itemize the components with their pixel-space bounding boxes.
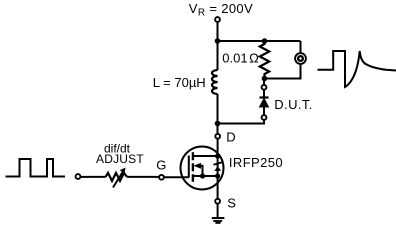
transistor Q1 body arrow xyxy=(193,163,202,176)
wire drain junction to D terminal xyxy=(217,124,219,134)
connector J1 coax probe xyxy=(295,53,306,64)
wire terminal to diode cathode xyxy=(263,90,265,96)
svg-text:IRFP250: IRFP250 xyxy=(229,155,283,170)
wire D terminal into mosfet drain xyxy=(217,139,219,156)
svg-text:ADJUST: ADJUST xyxy=(96,152,144,166)
wire mosfet source to S terminal xyxy=(217,176,219,198)
wire rheostat to G terminal xyxy=(127,176,159,178)
wire probe loop right side xyxy=(265,41,301,79)
svg-text:D: D xyxy=(226,130,235,145)
terminal DUT cathode xyxy=(262,85,267,90)
node top junction xyxy=(215,38,221,44)
wire S terminal to ground xyxy=(217,204,219,217)
node resistor bottom junction xyxy=(262,76,268,82)
terminal DUT anode xyxy=(262,115,267,120)
svg-text:S: S xyxy=(227,195,236,210)
label VR = 200V xyxy=(189,1,253,18)
wire diode anode to terminal xyxy=(263,107,265,115)
transistor Q1 envelope xyxy=(181,147,224,190)
resistor rheostat di/dt adjust xyxy=(106,173,128,181)
wire G terminal to gate xyxy=(164,176,188,178)
rheostat arrow xyxy=(113,168,126,188)
wire mosfet drain to source internal xyxy=(217,156,219,176)
waveform gate drive square wave xyxy=(6,159,66,177)
wire top horizontal to probe branch xyxy=(218,40,301,42)
node mosfet drain junction xyxy=(215,153,220,158)
wire VR terminal to top junction xyxy=(217,22,219,41)
wire DUT branch to drain node xyxy=(218,120,265,123)
wire resistor bottom to DUT anode terminal xyxy=(263,81,265,84)
node mosfet body junction xyxy=(200,173,205,178)
wire input terminal to rheostat xyxy=(81,176,106,178)
transistor Q1 source connect xyxy=(193,175,218,177)
svg-text:G: G xyxy=(156,158,166,173)
svg-text:D.U.T.: D.U.T. xyxy=(274,97,313,112)
node drain junction xyxy=(215,121,221,127)
svg-text:0.01Ω: 0.01Ω xyxy=(222,50,259,65)
terminal VR xyxy=(215,17,220,22)
transistor Q1 drain connect xyxy=(193,155,218,157)
wire top junction to inductor xyxy=(217,41,219,70)
svg-text:L = 70µH: L = 70µH xyxy=(153,75,206,90)
diode D.U.T. xyxy=(260,98,269,108)
resistor 0.01 ohm xyxy=(260,41,269,79)
waveform reverse recovery output xyxy=(318,51,396,87)
terminal G xyxy=(159,175,164,180)
inductor L 70uH xyxy=(212,70,218,94)
node mosfet source junction xyxy=(215,173,220,178)
terminal S xyxy=(215,199,220,204)
terminal D xyxy=(215,134,220,139)
diode body internal xyxy=(214,162,224,171)
transistor Q1 gate bar xyxy=(188,156,190,178)
terminal gate input xyxy=(76,174,81,179)
transistor Q1 channel segments xyxy=(192,152,194,182)
wire inductor to drain junction xyxy=(217,94,219,124)
node resistor top junction xyxy=(262,38,268,44)
ground xyxy=(212,217,225,224)
